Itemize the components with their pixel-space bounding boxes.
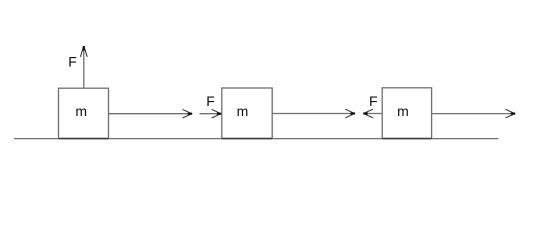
force arrow F left out of block m3	[363, 109, 382, 118]
block m3	[382, 88, 431, 139]
svg-text:F: F	[206, 93, 215, 109]
wire arrow right from block m3	[432, 109, 516, 118]
block m2	[222, 88, 272, 139]
force arrow F up from block m1	[80, 46, 87, 88]
wire arrow right from block m1	[109, 109, 193, 118]
svg-text:m: m	[397, 103, 409, 119]
svg-text:m: m	[75, 103, 87, 119]
svg-text:F: F	[369, 93, 378, 109]
block m1	[59, 88, 109, 138]
wire arrow right from block m2	[272, 109, 355, 118]
svg-text:m: m	[237, 103, 249, 119]
svg-text:F: F	[68, 54, 77, 70]
ground	[14, 138, 499, 140]
force arrow F into block m2	[200, 109, 222, 118]
